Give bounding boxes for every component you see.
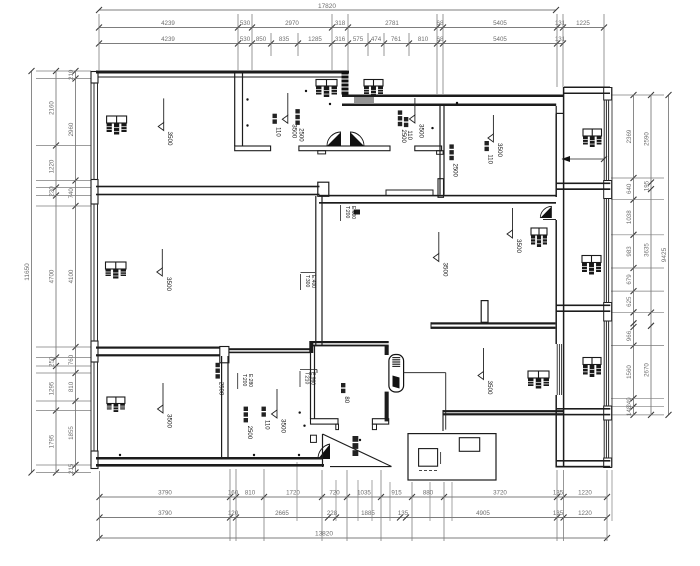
svg-text:1295: 1295 — [49, 381, 56, 395]
extension lines left — [36, 70, 91, 72]
svg-text:11650: 11650 — [24, 263, 31, 281]
fixture wing room3 — [583, 358, 601, 365]
wall bottom outer — [96, 457, 323, 460]
svg-text:110: 110 — [264, 420, 270, 430]
svg-text:T:200: T:200 — [241, 374, 247, 386]
svg-text:5405: 5405 — [493, 20, 507, 27]
door stop black mark — [354, 210, 360, 215]
svg-text:4100: 4100 — [68, 269, 75, 283]
wall wing h3 — [556, 305, 610, 307]
svg-text:17820: 17820 — [318, 3, 336, 10]
svg-text:1225: 1225 — [576, 20, 590, 27]
svg-text:4905: 4905 — [476, 510, 490, 517]
svg-text:4700: 4700 — [49, 269, 56, 283]
door room3 — [350, 132, 364, 146]
fixture wing room2 — [582, 256, 601, 263]
slope marker bottom-left room 3500 — [162, 383, 164, 405]
wall step room4 corner — [555, 106, 557, 113]
label room3 xiazhang110 — [404, 117, 408, 121]
dimension line top row3 — [99, 43, 563, 45]
wall corridor left — [555, 113, 557, 197]
svg-text:T:300: T:300 — [304, 275, 310, 287]
svg-text:E:400: E:400 — [310, 275, 316, 288]
extension lines bottom — [99, 471, 101, 541]
svg-text:131: 131 — [555, 36, 566, 43]
svg-text:3500: 3500 — [280, 419, 287, 434]
svg-text:966: 966 — [626, 330, 633, 341]
svg-text:850: 850 — [256, 36, 267, 43]
dimension line right chain E — [650, 95, 652, 415]
svg-text:4239: 4239 — [161, 20, 175, 27]
svg-text:640: 640 — [626, 183, 633, 194]
label bath xiazhang80 — [341, 383, 345, 387]
wall right outer junction boxes — [604, 88, 612, 101]
svg-text:1220: 1220 — [49, 159, 56, 173]
slope marker room1 3500 — [163, 98, 165, 122]
svg-text:2670: 2670 — [644, 363, 651, 377]
stair inner rect — [459, 438, 479, 452]
svg-text:110: 110 — [487, 154, 493, 164]
svg-text:1035: 1035 — [357, 490, 371, 497]
svg-text:1038: 1038 — [626, 210, 633, 224]
window corridor wall — [556, 344, 558, 395]
svg-text:915: 915 — [391, 490, 402, 497]
svg-text:3500: 3500 — [166, 132, 173, 147]
slope marker living b 3500 — [512, 208, 514, 230]
svg-text:1795: 1795 — [49, 434, 56, 448]
svg-text:1220: 1220 — [578, 490, 592, 497]
label bottomleft menkuan2500 — [216, 363, 220, 367]
svg-text:80: 80 — [343, 396, 349, 403]
label bedroom menkuan2500 — [244, 407, 248, 411]
balcony line right — [611, 87, 613, 468]
svg-text:195: 195 — [644, 180, 651, 191]
pillar middle wall — [318, 182, 329, 196]
svg-text:740: 740 — [68, 188, 75, 199]
label room4 menkuan2500 — [449, 144, 453, 148]
slope marker room3 3500 — [414, 98, 416, 115]
fixture top rooms3-4 b — [364, 80, 383, 87]
svg-text:2500: 2500 — [218, 382, 224, 396]
svg-text:810: 810 — [418, 36, 429, 43]
wall bottom-right room bottom — [443, 410, 564, 412]
svg-text:2665: 2665 — [275, 510, 289, 517]
svg-text:2781: 2781 — [385, 20, 399, 27]
slope marker living a 3500 — [438, 232, 440, 254]
svg-text:E:280: E:280 — [247, 374, 253, 387]
svg-text:120: 120 — [228, 510, 239, 517]
slope marker bottom-right room 3500 — [483, 348, 485, 372]
window right wall triple lines — [603, 100, 605, 181]
small dots — [246, 98, 248, 100]
svg-text:810: 810 — [68, 381, 75, 392]
portal bottom-left room — [220, 347, 229, 363]
svg-text:761: 761 — [391, 36, 402, 43]
svg-text:625: 625 — [626, 296, 633, 307]
svg-text:3500: 3500 — [515, 239, 522, 254]
svg-text:3500: 3500 — [165, 277, 172, 292]
svg-text:3500: 3500 — [290, 124, 297, 139]
dimension line right chain D — [633, 95, 635, 415]
wall top setback with window — [342, 95, 564, 98]
svg-text:760: 760 — [68, 354, 75, 365]
door bedroom bottom — [318, 444, 330, 459]
svg-text:110: 110 — [406, 130, 412, 140]
wall left outer junction boxes — [91, 72, 98, 84]
svg-text:T:210: T:210 — [304, 372, 310, 384]
svg-text:1855: 1855 — [68, 426, 75, 440]
svg-text:2500: 2500 — [452, 164, 458, 178]
svg-text:1560: 1560 — [626, 365, 633, 379]
wall room4 left — [439, 105, 441, 195]
wall corridor top segment c — [415, 146, 442, 151]
wall middle major left — [96, 186, 320, 188]
wall bottom-right room top — [431, 322, 555, 324]
wall bath top — [310, 341, 389, 343]
svg-text:13820: 13820 — [315, 531, 333, 538]
svg-text:135: 135 — [398, 510, 409, 517]
stair block outline — [408, 434, 496, 480]
wall bath bottom left — [311, 419, 339, 424]
stub above — [481, 301, 488, 323]
fixture bottom-right room — [528, 371, 549, 378]
extension lines right — [611, 94, 664, 96]
svg-text:2500: 2500 — [246, 426, 252, 440]
svg-text:2500: 2500 — [400, 130, 406, 144]
svg-text:2960: 2960 — [68, 122, 75, 136]
label room2 xiazhang110 — [273, 114, 277, 118]
dimension line bottom overall 13820 — [100, 537, 608, 539]
svg-text:1220: 1220 — [578, 510, 592, 517]
dimension line bottom row1 — [100, 496, 608, 498]
wall bath left — [310, 346, 312, 419]
svg-text:983: 983 — [626, 246, 633, 257]
dimension line left overall 11650 — [31, 71, 33, 473]
stair dashed marks — [419, 470, 422, 472]
svg-text:2500: 2500 — [298, 128, 304, 142]
label T210 E960 — [299, 371, 301, 387]
wall lower right b — [229, 348, 310, 350]
svg-text:3500: 3500 — [441, 263, 448, 278]
svg-text:679: 679 — [626, 274, 633, 285]
fixture bottom-left room — [107, 397, 125, 404]
arrow leader wing top room — [562, 158, 604, 160]
svg-text:2970: 2970 — [285, 20, 299, 27]
svg-text:880: 880 — [423, 490, 434, 497]
wall middle major right — [319, 195, 556, 197]
label bedroom xiazhang110 — [262, 407, 266, 411]
dimension line top row2 — [99, 27, 604, 29]
wall room1 right — [234, 72, 236, 146]
wall wing h4 — [556, 408, 610, 410]
label room3 menkuan2500 — [398, 110, 402, 114]
wall bath right upper — [385, 346, 389, 355]
wall corridor top segment a — [235, 146, 271, 151]
lobby boundary lines — [404, 372, 446, 374]
extension lines top — [98, 14, 100, 70]
parapet over middle wall — [386, 190, 433, 196]
svg-text:3790: 3790 — [158, 490, 172, 497]
dimension line left chain B — [55, 71, 57, 473]
window left wall triple lines — [90, 83, 92, 180]
fixture wing room1 — [583, 129, 602, 136]
slope marker bedroom 3500 — [276, 389, 278, 410]
wall wing h2 — [556, 183, 610, 185]
fixture top rooms2-3 a — [316, 80, 337, 87]
elevator inner square — [419, 449, 438, 467]
label T200 E280 — [237, 373, 239, 389]
stub wall at corridor junction — [438, 179, 444, 198]
fixture room1 — [107, 116, 127, 123]
wall bath bottom right — [372, 419, 388, 424]
svg-text:5405: 5405 — [493, 36, 507, 43]
svg-text:810: 810 — [245, 490, 256, 497]
label room2 menkuan2500 — [295, 109, 299, 113]
svg-text:4239: 4239 — [161, 36, 175, 43]
svg-text:1720: 1720 — [286, 490, 300, 497]
svg-text:9425: 9425 — [661, 247, 668, 262]
dimension line bottom row2 — [100, 517, 608, 519]
wall big room right — [315, 196, 317, 346]
svg-text:530: 530 — [240, 20, 251, 27]
svg-text:E:600: E:600 — [350, 206, 356, 219]
svg-text:3790: 3790 — [158, 510, 172, 517]
dimension line top overall 17820 — [99, 9, 556, 11]
svg-text:3500: 3500 — [166, 414, 173, 429]
wall lower left a — [96, 347, 220, 349]
svg-text:E:960: E:960 — [310, 372, 316, 385]
slope marker room2 3500 — [287, 93, 289, 115]
svg-text:575: 575 — [353, 36, 364, 43]
door corridor living — [540, 206, 552, 218]
svg-text:3635: 3635 — [644, 243, 651, 257]
fixture big room — [106, 262, 127, 269]
wall bath step — [309, 341, 313, 353]
svg-text:131: 131 — [555, 20, 566, 27]
dimension line right overall 9425 — [668, 95, 670, 415]
sliding door pill — [389, 355, 404, 393]
fixture living east — [531, 228, 547, 235]
svg-text:720: 720 — [329, 490, 340, 497]
label elevator shaft — [353, 436, 359, 442]
label room4 xiazhang110 — [485, 141, 489, 145]
svg-text:2590: 2590 — [644, 132, 651, 146]
label T200 E600 — [340, 205, 342, 221]
wall corridor top segment b — [299, 146, 390, 151]
svg-text:135: 135 — [553, 490, 564, 497]
svg-text:3500: 3500 — [417, 124, 424, 139]
wall bottom-left room right — [221, 356, 223, 458]
svg-text:1885: 1885 — [361, 510, 375, 517]
wall wing h5 — [556, 460, 610, 462]
svg-text:2369: 2369 — [626, 129, 633, 143]
svg-text:3500: 3500 — [486, 381, 493, 396]
svg-text:1285: 1285 — [308, 36, 322, 43]
svg-text:2160: 2160 — [49, 101, 56, 115]
svg-text:135: 135 — [553, 510, 564, 517]
wall bath right lower — [385, 392, 389, 422]
svg-text:316: 316 — [335, 36, 346, 43]
svg-text:530: 530 — [240, 36, 251, 43]
svg-text:160: 160 — [228, 490, 239, 497]
svg-text:3500: 3500 — [496, 143, 503, 158]
window pillar column rooms2-3 — [342, 71, 349, 95]
svg-text:3720: 3720 — [493, 490, 507, 497]
door room2 — [327, 132, 341, 146]
wall wing top — [564, 87, 610, 89]
slope marker big room 3500 — [161, 249, 163, 268]
slope marker room4 3500 — [492, 115, 494, 134]
svg-text:110: 110 — [275, 127, 281, 137]
wall top outer left — [96, 71, 349, 74]
entrance wedge — [322, 434, 324, 467]
svg-text:318: 318 — [335, 20, 346, 27]
svg-text:T:200: T:200 — [344, 206, 350, 218]
svg-text:474: 474 — [371, 36, 382, 43]
svg-text:835: 835 — [279, 36, 290, 43]
label T300 E400 — [300, 274, 302, 290]
dimension line left chain C — [75, 71, 77, 473]
